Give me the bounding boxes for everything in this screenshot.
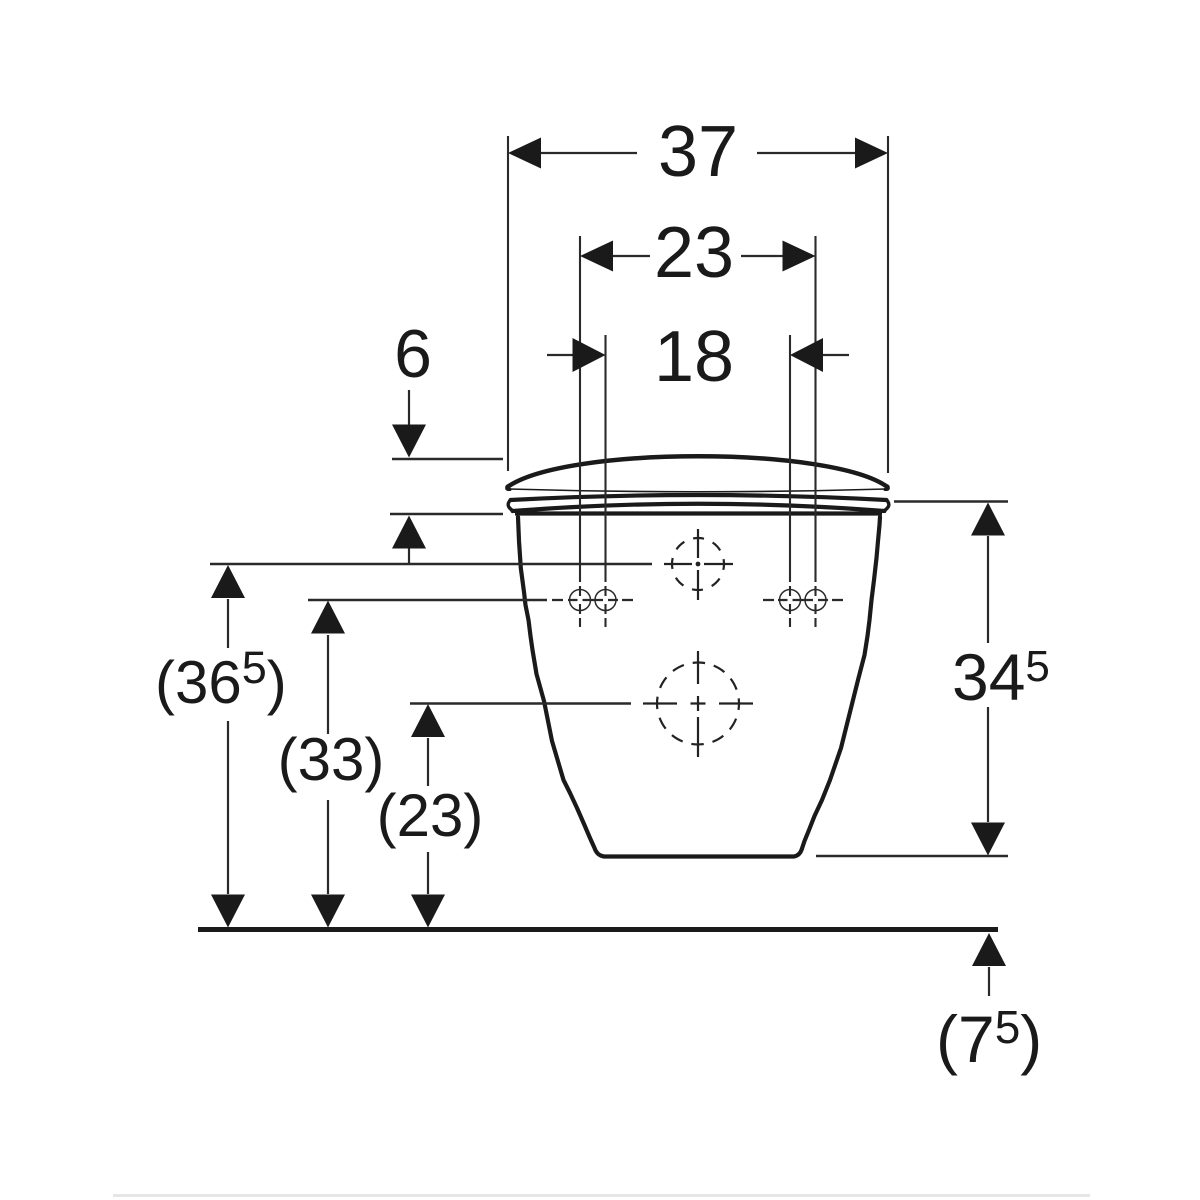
small hole C circle: [780, 590, 801, 611]
dimension 37 left arrow: [508, 138, 541, 169]
upper hole vertical centerline: [697, 529, 699, 600]
dimension 37 line: [541, 152, 855, 154]
dimension 6 lower reference line (rim top): [390, 513, 503, 515]
seat ring top arc: [511, 495, 887, 500]
lower hole center cross: [691, 696, 706, 711]
dimension 6 down arrow: [408, 390, 410, 425]
small hole D circle: [805, 590, 826, 611]
dimension 23 right arrow: [783, 241, 816, 272]
svg-text:18: 18: [654, 317, 734, 397]
lower mounting hole (dashed circle): [643, 651, 753, 757]
seat lid left tip hook: [507, 486, 510, 490]
svg-text:(75): (75): [936, 1001, 1042, 1076]
floor line: [198, 927, 998, 932]
lower hole vertical centerline: [697, 651, 699, 757]
upper hole center dot: [696, 562, 701, 567]
(23) dimension column: [427, 738, 429, 894]
dimension 37 right arrow: [855, 138, 888, 169]
37 left extension line: [507, 136, 509, 471]
34.5 down arrow: [971, 823, 1005, 856]
seat ring right tip: [885, 500, 889, 511]
23 left extension line / hole A centerline: [579, 236, 581, 627]
lower hole horizontal dashes: [643, 702, 753, 704]
dimension 18 left approach line: [547, 354, 574, 356]
svg-text:23: 23: [654, 213, 734, 293]
dimension 6 up arrow: [408, 548, 410, 564]
18 left extension line / hole B centerline: [604, 335, 606, 627]
(36.5) up arrow: [211, 565, 245, 598]
svg-text:(23): (23): [377, 782, 484, 849]
dimension 18 right approach line: [822, 354, 849, 356]
small hole A circle: [570, 590, 591, 611]
small holes left pair horizontal centerline: [552, 599, 633, 601]
seat lid right tip hook: [885, 486, 888, 490]
seat lid bottom edge (thin): [509, 489, 886, 492]
34.5 bottom tick: [816, 855, 1008, 857]
seat lid top arc: [508, 456, 888, 487]
dimension 18 right arrow: [790, 338, 823, 372]
small hole B circle: [595, 590, 616, 611]
svg-text:(365): (365): [155, 642, 287, 716]
extension lines: [508, 136, 888, 627]
(33) dimension column: [327, 635, 329, 894]
(33) reference line at small holes center: [308, 599, 547, 601]
34.5 dimension column: [987, 536, 989, 822]
seat ring left tip: [508, 500, 512, 511]
dimension 6 upper reference line (lid top): [392, 458, 503, 460]
dimension 18 left arrow: [573, 338, 606, 372]
svg-text:(33): (33): [278, 726, 385, 793]
34.5 top tick: [894, 500, 1008, 502]
(33) down arrow: [311, 895, 345, 928]
(36.5) down arrow: [211, 895, 245, 928]
(23) reference line at lower hole center: [410, 702, 631, 704]
(7.5) up arrow: [988, 967, 990, 996]
svg-text:6: 6: [394, 316, 432, 392]
small fixing holes group: [570, 590, 827, 611]
(33) up arrow: [311, 601, 345, 634]
dimension 23 left arrow: [580, 241, 613, 272]
(36.5) reference line at upper hole center: [210, 563, 652, 565]
dimension 23 line: [613, 255, 783, 257]
seat ring bottom arc: [513, 504, 885, 511]
decorative faint bottom rule: [113, 1194, 1090, 1197]
34.5 up arrow: [971, 503, 1005, 536]
upper mounting hole (dashed circle): [664, 529, 733, 600]
(23) up arrow: [411, 704, 445, 737]
(23) down arrow: [411, 895, 445, 928]
body top rim line: [515, 511, 882, 515]
toilet body outline: [518, 517, 880, 857]
small holes right pair horizontal centerline: [763, 599, 843, 601]
23 right extension line / hole D centerline: [814, 236, 816, 627]
(36.5) dimension column: [227, 599, 229, 894]
37 right extension line: [887, 136, 889, 473]
upper hole horizontal centerline: [664, 563, 733, 565]
18 right extension line / hole C centerline: [789, 335, 791, 627]
svg-text:37: 37: [658, 112, 738, 192]
